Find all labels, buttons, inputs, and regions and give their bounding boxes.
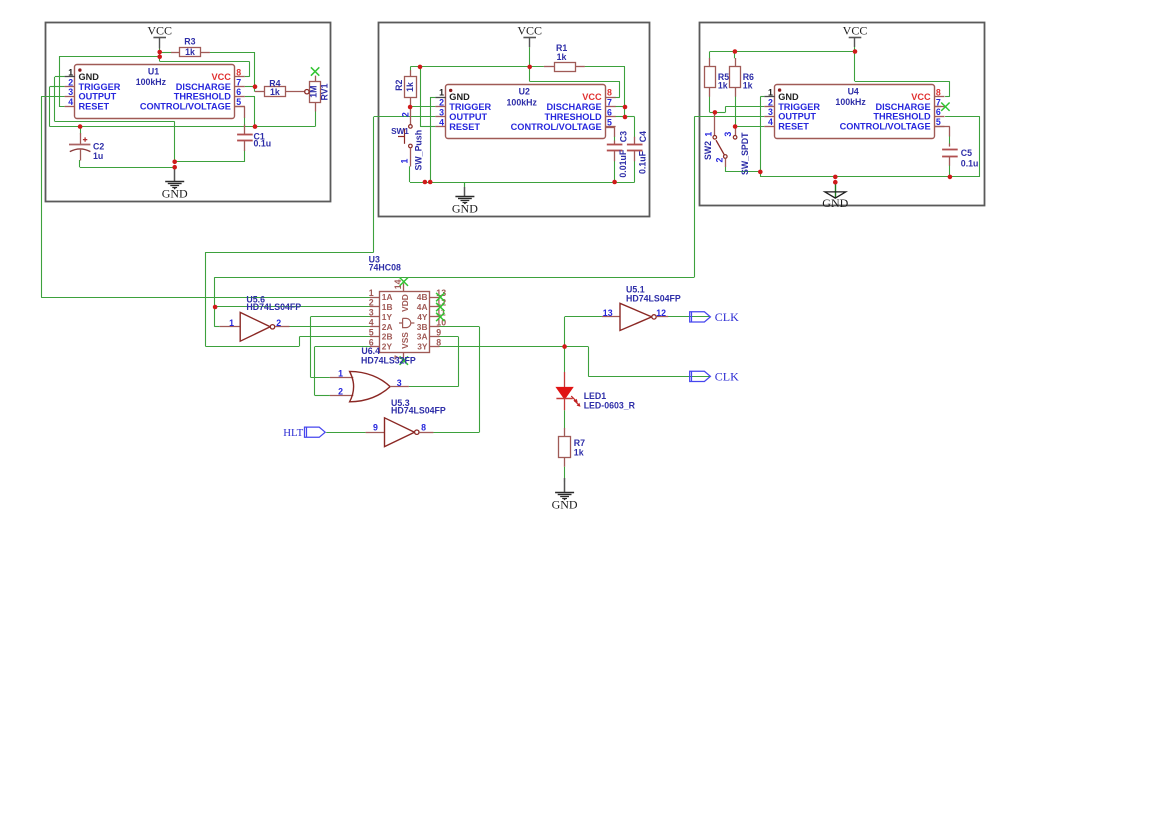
U3 reference label: [369, 255, 401, 273]
svg-text:TRIGGER: TRIGGER: [79, 82, 121, 92]
svg-text:VCC: VCC: [211, 72, 231, 82]
wire SW1 bottom to rail: [409, 166, 411, 182]
potentiometer RV1 1M: [305, 67, 330, 111]
svg-text:CONTROL/VOLTAGE: CONTROL/VOLTAGE: [511, 122, 602, 132]
svg-text:SW_SPDT: SW_SPDT: [740, 132, 750, 175]
svg-text:GND: GND: [552, 498, 578, 512]
svg-text:VCC: VCC: [147, 24, 172, 38]
svg-text:1k: 1k: [270, 87, 280, 97]
wire TRIGGER box3 (junction to pin2): [715, 107, 764, 113]
svg-text:C4: C4: [638, 131, 648, 142]
ground symbol at R7: [552, 478, 578, 512]
ground symbol box1: [162, 167, 188, 201]
svg-text:1k: 1k: [743, 80, 753, 90]
svg-text:7: 7: [936, 97, 941, 107]
switch SW2 SW_SPDT: [703, 112, 750, 175]
wire VCC rail box2: [410, 67, 544, 71]
svg-text:74HC08: 74HC08: [369, 263, 401, 273]
svg-text:3: 3: [723, 132, 733, 137]
wire RESET net box1 (VCC dot to pin4): [60, 57, 160, 107]
OR gate U6.4 HD74LS32FP: [330, 368, 409, 401]
svg-text:TRIGGER: TRIGGER: [449, 102, 491, 112]
svg-text:9: 9: [373, 422, 378, 432]
wire OUTPUT box2 pin3 exits left: [374, 117, 436, 253]
svg-text:U1: U1: [148, 66, 159, 76]
IC U1 555 timer: [65, 65, 245, 119]
svg-text:3: 3: [369, 308, 374, 318]
wire C2 bottom to ground dot: [80, 160, 175, 168]
wire R6 bottom to RESET junction: [735, 96, 764, 126]
svg-text:DISCHARGE: DISCHARGE: [176, 82, 231, 92]
svg-text:THRESHOLD: THRESHOLD: [174, 92, 232, 102]
wire box1-output to U3 pin1 (1A): [41, 297, 370, 299]
capacitor C5 0.1u: [934, 127, 978, 169]
junction dot clock node: [562, 344, 567, 349]
wire GND pin1 box3 down to rail: [760, 97, 764, 177]
wire U3 pin8 (3Y) to clock junction: [438, 346, 564, 348]
svg-text:1: 1: [68, 67, 73, 77]
wire U5.1 output to CLK tag 1: [668, 316, 710, 318]
wire box2-output net to U3 pin5 (2B): [205, 252, 373, 346]
svg-text:2Y: 2Y: [382, 342, 393, 352]
svg-text:1: 1: [439, 88, 444, 98]
svg-text:RV1: RV1: [320, 83, 330, 100]
svg-text:R3: R3: [184, 37, 195, 47]
svg-text:1k: 1k: [405, 82, 415, 92]
wire VCC rail box3: [710, 52, 856, 59]
U6.4 labels: [361, 346, 416, 365]
inverter U5.3 HD74LS04FP: [366, 418, 434, 447]
svg-text:CLK: CLK: [715, 370, 739, 384]
wire R5 bottom to trigger junction: [710, 96, 715, 112]
resistor R7 1k (vertical): [559, 428, 586, 467]
svg-text:2: 2: [68, 77, 73, 87]
wire pin5 to C3: [614, 136, 616, 141]
svg-text:6: 6: [236, 87, 241, 97]
U5.6 labels: [246, 295, 301, 312]
wire U5.6 output to U3 pin4 (2A): [289, 326, 370, 328]
svg-text:7: 7: [607, 98, 612, 108]
svg-text:2: 2: [768, 97, 773, 107]
svg-text:1: 1: [768, 87, 773, 97]
svg-text:2: 2: [338, 387, 343, 397]
svg-text:5: 5: [607, 117, 612, 127]
net port CLK (bottom): [690, 370, 739, 384]
svg-text:3: 3: [768, 107, 773, 117]
resistor R2 1k (vertical): [394, 70, 417, 107]
wire TRIGGER rail box1 (pin2 - C2 - pin6 - RV1 bottom): [50, 87, 316, 127]
svg-text:1A: 1A: [382, 292, 393, 302]
svg-text:100kHz: 100kHz: [835, 97, 866, 107]
resistor R4 1k: [255, 78, 305, 97]
svg-text:4A: 4A: [417, 302, 428, 312]
capacitor C4 0.1uF: [627, 131, 648, 174]
wire R7 to ground: [564, 467, 566, 482]
net port CLK (top): [690, 310, 739, 324]
wire C1 bottom to ground dot: [175, 150, 245, 162]
junction dots box2: [408, 65, 627, 185]
svg-text:THRESHOLD: THRESHOLD: [873, 112, 931, 122]
wire HLT tag to U5.3 input: [326, 432, 365, 434]
svg-text:C5: C5: [961, 148, 972, 158]
svg-text:2B: 2B: [382, 332, 393, 342]
svg-text:1B: 1B: [382, 302, 393, 312]
svg-text:THRESHOLD: THRESHOLD: [545, 112, 603, 122]
capacitor C3 0.01uF: [605, 127, 628, 178]
svg-text:GND: GND: [162, 187, 188, 201]
svg-text:1k: 1k: [574, 448, 584, 458]
svg-text:2: 2: [439, 98, 444, 108]
svg-text:GND: GND: [79, 72, 100, 82]
svg-text:7: 7: [236, 77, 241, 87]
svg-text:3: 3: [397, 378, 402, 388]
svg-text:HD74LS32FP: HD74LS32FP: [361, 355, 416, 365]
wire LED to R7: [564, 410, 566, 428]
wire pin6 THRESHOLD loop to ground box3: [945, 117, 980, 177]
svg-text:OUTPUT: OUTPUT: [79, 92, 117, 102]
svg-text:DISCHARGE: DISCHARGE: [547, 102, 602, 112]
svg-text:3: 3: [68, 87, 73, 97]
svg-text:VCC: VCC: [843, 24, 868, 38]
wire RESET box2 (rail to pin4): [420, 67, 435, 127]
svg-text:RESET: RESET: [778, 122, 809, 132]
wire U5.3 output to U3 pin10 (3B): [433, 327, 479, 433]
svg-text:1k: 1k: [557, 52, 567, 62]
svg-text:8: 8: [936, 87, 941, 97]
svg-text:8: 8: [607, 88, 612, 98]
wire OR output to U3 pin9 (3A): [409, 337, 459, 387]
capacitor C2 (polarized 1u): [69, 133, 104, 161]
power flag VCC box3: [843, 24, 868, 52]
svg-text:4B: 4B: [417, 292, 428, 302]
svg-text:1: 1: [338, 368, 343, 378]
svg-text:4: 4: [68, 97, 73, 107]
svg-text:GND: GND: [452, 202, 478, 216]
svg-text:5: 5: [369, 327, 374, 337]
net port HLT: [283, 427, 325, 439]
svg-text:2: 2: [369, 298, 374, 308]
svg-text:0.01uF: 0.01uF: [618, 149, 628, 177]
svg-text:C2: C2: [93, 141, 104, 151]
svg-text:4: 4: [439, 117, 444, 127]
svg-text:CLK: CLK: [715, 310, 739, 324]
block border box3 (bistable 555): [700, 23, 985, 206]
svg-text:4: 4: [768, 117, 773, 127]
U5.1 labels: [626, 285, 681, 304]
resistor R3 1k: [171, 37, 210, 58]
svg-text:R7: R7: [574, 438, 585, 448]
svg-text:VCC: VCC: [517, 24, 542, 38]
svg-text:GND: GND: [778, 92, 799, 102]
svg-text:0.1u: 0.1u: [254, 139, 272, 149]
svg-text:5: 5: [236, 97, 241, 107]
svg-text:8: 8: [236, 67, 241, 77]
svg-text:GND: GND: [449, 92, 470, 102]
svg-text:LED-0603_R: LED-0603_R: [584, 401, 636, 411]
wire C5 bottom green: [949, 165, 951, 177]
power flag VCC box1: [147, 24, 172, 52]
svg-text:1M: 1M: [309, 86, 319, 98]
svg-text:RESET: RESET: [449, 122, 480, 132]
svg-text:6: 6: [607, 108, 612, 118]
switch SW1 SW_Push: [391, 107, 424, 171]
wire OUTPUT box1 pin3 exits left: [41, 97, 65, 298]
wire U3 pin3 (1Y) to OR gate input 1: [311, 317, 371, 378]
no-connect X on U3 pin14: [400, 278, 408, 286]
IC U4 555 timer: [764, 85, 944, 139]
svg-text:RESET: RESET: [79, 102, 110, 112]
svg-text:OUTPUT: OUTPUT: [449, 112, 487, 122]
wire SW2 common to ground rail: [725, 167, 760, 172]
wire pin5 to C5 top: [949, 136, 951, 144]
wire VCC to pin8 loop box2: [530, 67, 620, 98]
svg-text:8: 8: [421, 422, 426, 432]
inverter U5.6 HD74LS04FP: [220, 312, 290, 341]
svg-text:CONTROL/VOLTAGE: CONTROL/VOLTAGE: [840, 122, 931, 132]
svg-text:1k: 1k: [185, 47, 195, 57]
junction dots box1: [78, 50, 258, 170]
svg-text:12: 12: [656, 308, 666, 318]
IC U2 555 timer: [435, 85, 615, 139]
junction dot logic net (U5.6/U3 pin2): [213, 305, 218, 310]
svg-text:R2: R2: [394, 79, 404, 90]
svg-text:VCC: VCC: [911, 92, 931, 102]
svg-text:0.1uF: 0.1uF: [638, 150, 648, 174]
svg-text:100kHz: 100kHz: [136, 77, 167, 87]
svg-text:2: 2: [714, 158, 724, 163]
svg-text:9: 9: [436, 327, 441, 337]
svg-text:SW2: SW2: [703, 141, 713, 160]
power flag VCC box2: [517, 24, 542, 67]
block border box2 (monostable 555): [379, 23, 650, 217]
svg-text:VDD: VDD: [400, 294, 410, 312]
wire R3 right to R4 (x=255 vertical): [210, 52, 255, 92]
wire box3-output net to U3 pin2 and U5.6 input: [215, 277, 695, 327]
ground symbol box2: [452, 182, 478, 216]
U5.3 labels: [391, 398, 446, 416]
no-connect X on U3 pins 13 12 11: [436, 293, 444, 321]
ground symbol box3 (triangle style): [822, 182, 848, 210]
capacitor C1: [234, 107, 271, 151]
svg-text:HD74LS04FP: HD74LS04FP: [626, 294, 681, 304]
resistor R6 1k (vertical): [730, 58, 755, 97]
wire U3 pin6 (2Y) to OR gate input 2: [315, 347, 371, 396]
svg-text:8: 8: [436, 337, 441, 347]
svg-text:OUTPUT: OUTPUT: [778, 112, 816, 122]
wire VCC to pin8 loop box3: [855, 52, 950, 97]
svg-text:LED1: LED1: [584, 391, 607, 401]
wire junction down to LED1: [564, 347, 566, 372]
svg-text:2: 2: [276, 318, 281, 328]
svg-text:C3: C3: [619, 131, 629, 142]
wire TRIGGER box2 (R2/SW1 junction to pin2): [410, 106, 435, 108]
wire junction to CLK tag 2: [565, 347, 710, 377]
wire C2 top stub green part: [80, 127, 82, 135]
svg-text:4: 4: [369, 318, 374, 328]
svg-text:U2: U2: [519, 87, 530, 97]
svg-text:1: 1: [703, 132, 713, 137]
resistor R5 1k (vertical): [705, 58, 730, 97]
wire pin7 DISCHARGE to junction: [245, 86, 255, 88]
svg-text:6: 6: [936, 107, 941, 117]
LED LED1 LED-0603_R: [556, 372, 635, 411]
svg-text:1: 1: [400, 159, 410, 164]
resistor R1 1k: [544, 43, 585, 71]
wire GND pin1 box2 down to rail: [430, 97, 435, 182]
svg-text:SW1: SW1: [391, 127, 409, 136]
svg-text:VCC: VCC: [582, 92, 602, 102]
wire R1 to DISCHARGE/THRESHOLD box2: [585, 67, 635, 138]
wire junction up to U5.1 input: [565, 317, 602, 347]
wire bottom rail box3: [760, 176, 980, 178]
svg-text:HLT: HLT: [283, 427, 303, 439]
wire pin6 THRESHOLD down to trigger rail: [245, 97, 255, 127]
no-connect X on U4 pin7: [934, 103, 950, 111]
svg-text:CONTROL/VOLTAGE: CONTROL/VOLTAGE: [140, 102, 231, 112]
svg-text:1k: 1k: [718, 80, 728, 90]
svg-text:TRIGGER: TRIGGER: [778, 102, 820, 112]
svg-text:SW_Push: SW_Push: [414, 130, 424, 171]
svg-text:HD74LS04FP: HD74LS04FP: [391, 406, 446, 416]
inverter U5.1 HD74LS04FP: [602, 303, 668, 330]
svg-text:3: 3: [439, 108, 444, 118]
svg-text:U4: U4: [848, 86, 859, 96]
svg-text:HD74LS04FP: HD74LS04FP: [246, 302, 301, 312]
svg-text:1u: 1u: [93, 151, 103, 161]
svg-text:1: 1: [229, 318, 234, 328]
svg-text:5: 5: [936, 117, 941, 127]
no-connect X on U3 pin7: [400, 356, 408, 364]
wire bottom rail box2: [410, 161, 635, 183]
svg-text:3B: 3B: [417, 322, 428, 332]
wire pin5 to C1 top: [244, 117, 246, 125]
svg-text:VSS: VSS: [400, 332, 410, 349]
svg-text:0.1u: 0.1u: [961, 158, 979, 168]
wire OUTPUT box3 pin3 exits left: [694, 117, 764, 278]
junction dots box3: [713, 49, 953, 184]
svg-text:GND: GND: [822, 196, 848, 210]
svg-text:2A: 2A: [382, 322, 393, 332]
svg-text:1Y: 1Y: [382, 312, 393, 322]
svg-text:100kHz: 100kHz: [507, 97, 538, 107]
block border box1 (astable 555): [46, 23, 331, 202]
svg-text:DISCHARGE: DISCHARGE: [875, 102, 930, 112]
svg-text:2: 2: [400, 112, 410, 117]
svg-text:3A: 3A: [417, 332, 428, 342]
IC U3 74HC08 (quad AND): [369, 279, 446, 360]
wire GND net box1 (pin1 down to ground): [55, 77, 175, 162]
svg-text:3Y: 3Y: [417, 342, 428, 352]
wire VCC net box1 (VCC to R3 and pin8 loop): [160, 52, 250, 77]
svg-text:1: 1: [369, 288, 374, 298]
svg-text:4Y: 4Y: [417, 312, 428, 322]
svg-text:13: 13: [603, 308, 613, 318]
